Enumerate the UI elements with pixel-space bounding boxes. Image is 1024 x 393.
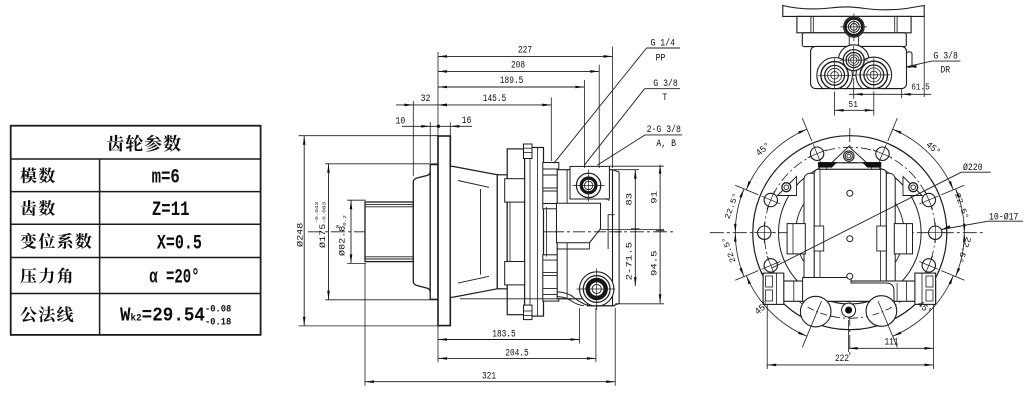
valve block right boss: [915, 273, 936, 304]
table row 公法线: [20, 306, 73, 322]
dim 321: [364, 264, 366, 386]
svg-text:G 3/8: G 3/8: [653, 78, 678, 90]
arc 45 top left: [746, 129, 807, 190]
svg-text:111: 111: [884, 338, 898, 349]
gear ring stack top: [543, 163, 559, 209]
bolt circle arcs through counterbores: [873, 307, 892, 315]
center small circles: [847, 190, 853, 196]
bolt hole 67.5: [922, 193, 935, 206]
bolt hole -67.5: [764, 193, 777, 206]
svg-text:32: 32: [421, 94, 431, 105]
bottom joint bolt: [524, 305, 533, 320]
bolt circle: [764, 147, 935, 318]
svg-text:-0.18: -0.18: [205, 317, 231, 329]
table row 齿数: [21, 200, 55, 216]
angular dim lines: [802, 118, 812, 141]
valve block inner plate: [803, 278, 894, 302]
port PP circles: [576, 173, 600, 197]
bolt hole 22.5: [876, 147, 889, 160]
svg-text:α =20°: α =20°: [149, 266, 199, 289]
svg-text:94.5: 94.5: [651, 250, 660, 276]
mounting flange: [438, 136, 450, 326]
left port circles: [821, 62, 848, 89]
svg-text:A, B: A, B: [656, 139, 676, 150]
arc 22.5 right lower: [956, 233, 965, 277]
table row 模数: [20, 167, 55, 183]
dim 61.5: [853, 78, 855, 99]
leader G 3/8 DR: [908, 65, 917, 68]
spool cavity section: [557, 203, 601, 243]
port T circles: [580, 272, 614, 306]
arc 45 bottom right: [893, 276, 954, 337]
bolt hole -112.5: [764, 259, 777, 272]
top joint bolt: [524, 144, 533, 159]
lug bolt: [844, 151, 854, 161]
dim 83 and 2-71.5: [634, 170, 636, 287]
right side extension lines: [609, 165, 664, 167]
svg-text:189.5: 189.5: [500, 76, 524, 87]
plug bolt right: [903, 177, 922, 196]
stack notch bottom: [559, 281, 571, 293]
port block: [557, 170, 612, 306]
svg-text:m=6: m=6: [152, 166, 180, 189]
bolt hole -22.5: [810, 147, 823, 160]
svg-text:208: 208: [511, 61, 525, 72]
arc 22.5 left lower: [735, 233, 744, 277]
leader G 1/4 PP: [554, 48, 647, 163]
arc 45 top right: [893, 129, 954, 190]
valve block left boss: [763, 273, 784, 304]
inner step rect left: [814, 226, 824, 251]
dim 91 and 94.5: [659, 165, 661, 304]
top view flange band with break line: [783, 6, 924, 17]
svg-text:Ø175: Ø175: [319, 223, 328, 248]
dim 145.5: [550, 98, 552, 162]
arc 22.5 right upper: [956, 189, 965, 233]
flange edge projection line: [923, 17, 925, 97]
parameter table frame: [11, 126, 261, 335]
cone transition: [450, 166, 497, 297]
svg-text:Ø248: Ø248: [296, 222, 305, 247]
hub: [413, 171, 430, 293]
housing collar: [507, 149, 524, 315]
top plate band: [819, 163, 879, 170]
DR boss tab: [907, 52, 913, 67]
svg-text:-0.083: -0.083: [321, 202, 327, 224]
port PP boss: [570, 166, 609, 199]
svg-text:2-71.5: 2-71.5: [626, 242, 635, 281]
svg-text:-0.08: -0.08: [205, 304, 231, 316]
port bosses trefoil: [838, 45, 869, 76]
svg-text:51: 51: [849, 99, 859, 110]
dim phi248: [299, 135, 439, 137]
svg-text:PP: PP: [656, 54, 666, 65]
dim 208: [598, 65, 600, 168]
plug bolt left: [778, 177, 797, 196]
svg-text:10-Ø17: 10-Ø17: [989, 211, 1018, 223]
port T boss curve: [557, 292, 588, 306]
svg-text:2-G 3/8: 2-G 3/8: [647, 124, 681, 136]
stack middle lines: [546, 207, 548, 257]
boss lug top: [505, 179, 525, 202]
top view tier2: [797, 16, 911, 32]
dim phi175: [325, 163, 438, 165]
counterbore hole left: [800, 296, 831, 327]
top view valve block: [811, 46, 907, 88]
dim 227: [437, 52, 439, 136]
lug corner wedges: [818, 162, 836, 167]
cover plate: [525, 148, 544, 317]
front body main block: [814, 169, 886, 296]
dim 51: [834, 92, 836, 116]
side pad right: [894, 224, 912, 254]
housing bottom edge: [460, 298, 571, 300]
side view centerline: [308, 231, 674, 233]
dim 189.5: [583, 80, 585, 168]
centerline over cavity: [552, 231, 622, 233]
table row 压力角: [20, 268, 71, 284]
leader phi220: [772, 172, 961, 268]
bolt hole -90: [758, 226, 771, 239]
inner step rect right: [877, 226, 887, 251]
svg-text:-0.043: -0.043: [314, 202, 320, 224]
bolt hole 112.5: [922, 259, 935, 272]
bolt hole 90: [929, 226, 942, 239]
bottom center bolt: [842, 303, 856, 317]
arc 45 bottom left: [746, 276, 807, 337]
svg-text:16: 16: [462, 116, 472, 127]
table header 齿轮参数: [107, 135, 181, 152]
svg-text:G 3/8: G 3/8: [933, 51, 958, 63]
housing cylinder: [497, 175, 507, 289]
svg-text:227: 227: [518, 46, 532, 57]
dim 222: [766, 305, 768, 369]
svg-text:321: 321: [482, 372, 496, 383]
svg-text:X=0.5: X=0.5: [157, 232, 202, 255]
gear ring stack bottom: [543, 255, 559, 301]
leader 10-phi17: [942, 225, 951, 229]
svg-text:145.5: 145.5: [483, 94, 507, 105]
top view center bolt: [844, 17, 864, 37]
arc 22.5 left upper: [735, 189, 744, 233]
dim 204.5: [595, 308, 597, 362]
leader G 3/8 T: [584, 89, 644, 166]
top view tier3: [802, 33, 906, 47]
svg-text:83: 83: [626, 193, 635, 206]
svg-text:Z=11: Z=11: [152, 199, 190, 222]
cone inner wall: [458, 181, 489, 188]
block bottom edge over bosses: [780, 89, 930, 95]
boss lug bottom: [505, 262, 525, 285]
dim 32: [412, 101, 414, 176]
svg-text:Ø220: Ø220: [963, 162, 983, 174]
stack notch top: [559, 171, 571, 183]
front body outer tier: [804, 173, 895, 288]
table row 变位系数: [20, 233, 91, 249]
spigot ring: [430, 165, 438, 300]
splined shaft: [365, 202, 413, 262]
svg-text:91: 91: [651, 191, 660, 204]
svg-text:T: T: [662, 93, 667, 104]
svg-text:183.5: 183.5: [492, 330, 516, 341]
dim 10 and 16: [429, 122, 431, 163]
svg-text:DR: DR: [940, 66, 950, 77]
leader 2-G 3/8 A,B: [597, 135, 645, 165]
center crosshair: [710, 232, 986, 234]
svg-text:61.5: 61.5: [911, 82, 930, 93]
front view outer circle: [753, 136, 947, 330]
dim 183.5: [437, 326, 439, 362]
svg-text:10: 10: [396, 117, 406, 128]
svg-text:-0.2: -0.2: [342, 215, 348, 230]
block bottom right: [588, 305, 616, 307]
front view inner circle: [779, 161, 922, 304]
top port circles: [843, 50, 864, 71]
svg-text:G 1/4: G 1/4: [651, 38, 676, 50]
lifting lug triangle: [832, 147, 867, 163]
right port circles: [860, 61, 887, 88]
valve block band: [763, 281, 936, 301]
side pad left: [787, 224, 805, 254]
svg-text:222: 222: [835, 354, 849, 365]
dim 111: [933, 305, 935, 369]
svg-text:0: 0: [335, 225, 341, 229]
inner circle r54: [796, 178, 905, 287]
dim phi82.8: [347, 199, 366, 201]
svg-text:204.5: 204.5: [505, 348, 529, 359]
counterbore hole right: [866, 296, 897, 327]
